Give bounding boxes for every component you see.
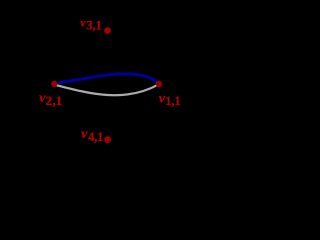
svg-text:v: v <box>80 15 86 29</box>
svg-text:3,1: 3,1 <box>86 18 101 32</box>
svg-text:2,1: 2,1 <box>46 94 63 108</box>
svg-text:4,1: 4,1 <box>88 130 103 144</box>
svg-text:1,1: 1,1 <box>165 94 180 108</box>
